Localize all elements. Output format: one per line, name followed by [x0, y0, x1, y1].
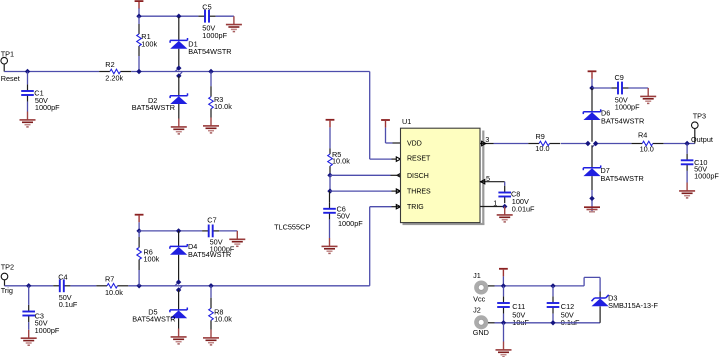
resistor R2 [99, 69, 131, 74]
ground R8 [203, 330, 219, 345]
resistor R3 [209, 72, 214, 118]
capacitor C5 [198, 10, 215, 23]
label D1 [188, 39, 231, 56]
test point TP2 [1, 273, 8, 286]
pin 1 GND [480, 206, 505, 208]
node junction R3 top [208, 69, 213, 74]
power VCC J1 [499, 269, 508, 277]
node junction C9 [589, 85, 594, 90]
svg-text:TRIG: TRIG [407, 204, 424, 211]
label D4 [188, 242, 231, 259]
label C11 [512, 302, 529, 327]
svg-text:Reset: Reset [1, 74, 20, 83]
svg-text:U1: U1 [402, 117, 411, 126]
label TLC555CP [274, 222, 310, 231]
node junction C1 [25, 69, 30, 74]
svg-text:C9: C9 [615, 73, 624, 82]
ground D5 [171, 329, 187, 344]
wire jog D6-D7 [592, 144, 596, 148]
wire jog D1-D2 [175, 68, 182, 76]
label D5 [132, 308, 175, 324]
label C6 [337, 204, 364, 228]
label D7 [601, 166, 644, 183]
label R4 [638, 131, 654, 154]
label TP1 [1, 50, 14, 59]
pin label THRES [407, 188, 431, 195]
connector J1 [476, 283, 486, 293]
svg-text:5: 5 [486, 174, 490, 183]
wire GND net [495, 322, 601, 324]
wire TRIG vertical [370, 207, 401, 286]
label TP2 [1, 262, 14, 271]
resistor R1 [137, 24, 142, 56]
node junction C8 bottom [502, 204, 507, 209]
wire Reset net [4, 72, 391, 160]
svg-text:RESET: RESET [407, 156, 431, 163]
label R3 [214, 95, 232, 111]
svg-text:3: 3 [485, 135, 489, 144]
capacitor C12 [547, 286, 560, 323]
label Trig [1, 286, 13, 295]
capacitor C9 [611, 82, 628, 95]
node junction D2 top [176, 73, 181, 78]
svg-text:VDD: VDD [407, 141, 422, 148]
label R7 [105, 275, 123, 297]
label C1 [34, 89, 60, 113]
wire OUT net [494, 143, 695, 145]
ground R3 [203, 118, 219, 133]
label R9 [535, 132, 549, 153]
wire R5 to THRES junction [329, 175, 331, 191]
pin 3 OUT [480, 141, 494, 145]
wire pin5 to C8 [504, 182, 506, 186]
svg-text:BAT54WSTR: BAT54WSTR [188, 250, 231, 259]
resistor R4 [632, 141, 664, 146]
svg-text:C7: C7 [207, 215, 216, 224]
diode D1 BAT54WSTR [170, 17, 187, 68]
pin 5 CONT [480, 180, 505, 184]
node junction D1 bottom [176, 65, 181, 70]
label C12 [561, 302, 580, 327]
wire J2 net to ground [503, 323, 505, 342]
node junction D5 top [176, 287, 181, 292]
wire J1 pin [488, 285, 495, 287]
op-amp U1 TLC555CP body [401, 128, 485, 225]
resistor R7 [96, 284, 128, 289]
svg-text:C5: C5 [202, 2, 211, 11]
svg-text:1000pF: 1000pF [338, 219, 363, 228]
power VCC D6 [588, 71, 597, 79]
wire J2 pin [488, 322, 495, 324]
svg-text:1000pF: 1000pF [35, 326, 60, 335]
svg-text:10.0: 10.0 [640, 145, 654, 154]
svg-text:J2: J2 [473, 305, 481, 314]
wire sub-rail [139, 230, 202, 232]
svg-text:1000pF: 1000pF [202, 31, 227, 40]
test point TP3 [692, 122, 699, 144]
node junction THRES [327, 188, 332, 193]
capacitor C6 [323, 191, 336, 219]
svg-text:J1: J1 [473, 271, 481, 280]
label R2 [105, 60, 123, 83]
resistor R9 [528, 141, 560, 146]
node junction C11 top [501, 283, 506, 288]
label J2 [473, 305, 481, 314]
ground C3 [21, 330, 37, 345]
svg-text:TP2: TP2 [1, 262, 14, 271]
node junction R6 top [136, 228, 141, 233]
power VDD [381, 120, 390, 128]
label C5 [202, 2, 227, 40]
svg-text:DISCH: DISCH [407, 173, 429, 180]
svg-text:TLC555CP: TLC555CP [274, 222, 310, 231]
capacitor C7 [202, 225, 219, 238]
label pin1 [493, 198, 497, 207]
svg-text:Vcc: Vcc [473, 295, 486, 304]
label J1 [473, 271, 481, 280]
pin label VDD [407, 141, 422, 148]
svg-text:BAT54WSTR: BAT54WSTR [132, 315, 175, 324]
label D3 [608, 294, 658, 311]
ground C7 [229, 231, 245, 246]
wire C5 to ground [216, 15, 234, 17]
node junction R1 bottom [136, 69, 141, 74]
svg-text:100k: 100k [144, 255, 160, 264]
ground C9 [640, 88, 656, 103]
wire Vcc net [495, 277, 601, 291]
svg-text:R9: R9 [536, 132, 545, 141]
svg-text:R2: R2 [105, 60, 114, 69]
diode D4 BAT54WSTR [170, 231, 187, 282]
resistor R8 [209, 286, 214, 330]
wire R1 bottom [138, 56, 140, 72]
label Output [691, 135, 713, 144]
ground C5 [226, 16, 242, 31]
pin arrow DISCH [397, 173, 401, 177]
svg-text:R7: R7 [105, 275, 114, 284]
wire D6 top [591, 79, 593, 88]
diode D7 BAT54WSTR [583, 145, 600, 190]
label U1 [402, 117, 411, 126]
capacitor C8 [498, 186, 511, 203]
svg-text:R4: R4 [638, 131, 647, 140]
wire R1 top [138, 16, 140, 24]
label R1 [141, 32, 157, 48]
pin label RESET [407, 156, 431, 163]
label TP3 [693, 112, 706, 121]
svg-text:0.01uF: 0.01uF [512, 204, 535, 213]
label C4 [58, 272, 78, 309]
capacitor C1 [21, 72, 34, 112]
svg-text:GND: GND [473, 328, 489, 337]
wire top rail y=15.7 [139, 15, 198, 17]
pin label DISCH [407, 173, 429, 180]
power VCC R6 [135, 215, 144, 223]
wire jog D4-D5 [175, 282, 182, 290]
diode D5 BAT54WSTR [170, 290, 187, 329]
svg-text:BAT54WSTR: BAT54WSTR [132, 103, 175, 112]
label C9 [615, 73, 641, 112]
pin arrow TRIG [396, 205, 400, 209]
ground J2 net [496, 342, 512, 357]
label pin5 [486, 174, 490, 183]
wire power stub to top rail [138, 8, 140, 16]
node junction D7 top [593, 141, 598, 146]
node junction D7 anode [589, 196, 594, 201]
svg-text:Output: Output [691, 135, 713, 144]
node junction C10 [684, 141, 689, 146]
resistor R5 [328, 148, 333, 175]
test point TP1 [1, 57, 8, 71]
svg-text:1000pF: 1000pF [35, 103, 60, 112]
svg-text:BAT54WSTR: BAT54WSTR [601, 116, 644, 125]
capacitor C11 [497, 286, 510, 323]
svg-text:2.20k: 2.20k [105, 74, 123, 83]
svg-text:10.0k: 10.0k [214, 102, 232, 111]
label R8 [214, 307, 232, 323]
ground C1 [20, 112, 36, 127]
svg-text:Trig: Trig [1, 286, 13, 295]
svg-text:BAT54WSTR: BAT54WSTR [188, 47, 231, 56]
wire R5 top [329, 127, 331, 148]
diode D3 SMBJ15A-13-F [592, 292, 609, 323]
ground D7 [584, 207, 600, 212]
ground D2 [171, 119, 187, 134]
svg-text:10.0k: 10.0k [214, 315, 232, 324]
wire RESET pin [392, 158, 397, 160]
label C7 [207, 215, 235, 253]
diode D2 BAT54WSTR [170, 76, 187, 119]
svg-text:TP3: TP3 [693, 112, 706, 121]
svg-text:10.0k: 10.0k [105, 288, 123, 297]
svg-text:BAT54WSTR: BAT54WSTR [601, 174, 644, 183]
wire J1 power stub [502, 276, 504, 286]
ground 555 pin1 [497, 207, 513, 222]
svg-text:1000pF: 1000pF [694, 172, 719, 181]
node junction R8 top [208, 283, 213, 288]
pin arrow THRES [396, 189, 400, 193]
label R6 [144, 248, 160, 264]
connector J2 [476, 317, 486, 327]
ground C10 [679, 183, 695, 198]
capacitor C4 [53, 279, 70, 292]
node junction D4 bottom [176, 279, 181, 284]
label R5 [332, 150, 350, 166]
node junction C11 bottom [501, 320, 506, 325]
label C10 [694, 158, 719, 181]
wire C7 to ground [219, 230, 237, 232]
node junction D4 top [176, 228, 181, 233]
svg-text:C4: C4 [58, 272, 67, 281]
diode D6 BAT54WSTR [583, 88, 600, 142]
wire THRES [330, 190, 401, 192]
svg-text:1: 1 [493, 198, 497, 207]
node junction D6 bottom [585, 141, 590, 146]
wire C9 right [629, 87, 649, 89]
label C8 [511, 190, 535, 214]
ground C6 [322, 238, 338, 253]
svg-text:100k: 100k [141, 40, 157, 49]
svg-text:1000pF: 1000pF [615, 103, 640, 112]
node junction R6 bottom [136, 283, 141, 288]
svg-text:SMBJ15A-13-F: SMBJ15A-13-F [608, 301, 658, 310]
wire VDD [386, 128, 401, 143]
node junction DISCH [327, 173, 332, 178]
wire D7 anode [591, 190, 593, 213]
svg-text:TP1: TP1 [1, 50, 14, 59]
power VCC R5 [326, 120, 335, 128]
capacitor C10 [681, 144, 694, 183]
svg-text:10.0k: 10.0k [332, 156, 350, 165]
label pin3 [485, 135, 489, 144]
power VCC top-left [135, 1, 144, 9]
wire Trig net [5, 285, 370, 287]
wire R6 top [138, 222, 140, 231]
label D2 [132, 96, 175, 112]
label C3 [35, 311, 60, 335]
node junction C12 bottom [550, 320, 555, 325]
label Vcc [473, 295, 486, 304]
wire C9 left [592, 87, 611, 89]
node junction R1 top [136, 14, 141, 19]
wire C6 to ground [329, 219, 331, 238]
node junction C12 top [550, 283, 555, 288]
label GND [473, 328, 489, 337]
svg-text:0.1uF: 0.1uF [59, 300, 78, 309]
svg-text:10.0: 10.0 [535, 144, 549, 153]
node junction D1 top [176, 14, 181, 19]
label D6 [601, 108, 644, 125]
resistor R6 [137, 231, 142, 286]
pin arrow RESET [396, 157, 400, 161]
capacitor C3 [22, 286, 35, 330]
node junction C3 [26, 283, 31, 288]
label Reset [1, 74, 20, 83]
pin label TRIG [407, 204, 424, 211]
svg-text:THRES: THRES [407, 188, 431, 195]
wire DISCH [330, 174, 397, 176]
